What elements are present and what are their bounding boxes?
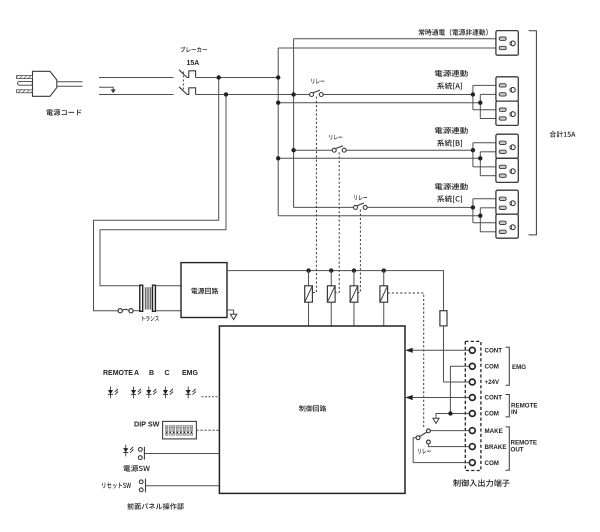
plug blade prong (bottom) xyxy=(17,90,33,93)
node bus1-hot xyxy=(276,75,280,79)
svg-text:EMG: EMG xyxy=(182,370,199,377)
LED D4 (C) xyxy=(163,387,174,399)
label 電源連動 C xyxy=(435,183,468,190)
bracket total current xyxy=(529,31,537,235)
outlet J2 (A lower) xyxy=(496,101,518,125)
bus1 vertical (hot) xyxy=(277,48,279,216)
node coil K2 supply xyxy=(329,268,333,272)
svg-text:C: C xyxy=(165,370,170,377)
label 電源回路 xyxy=(191,288,218,294)
svg-text:OUT: OUT xyxy=(511,446,524,453)
arrow into control box (REMOTE IN CONT) xyxy=(405,395,412,400)
LED D6 (power) xyxy=(123,445,134,457)
outlet J0 (常時通電) xyxy=(496,31,518,56)
svg-text:A: A xyxy=(134,370,139,377)
breaker CB1 pole2 blade xyxy=(179,87,187,95)
svg-text:MAKE: MAKE xyxy=(485,428,503,435)
wire hot from cord to breaker xyxy=(99,77,174,79)
wire secondary bottom to power circuit xyxy=(155,310,181,312)
svg-text:COM: COM xyxy=(485,364,499,371)
label 系統[A] xyxy=(437,82,462,89)
bracket REMOTE IN group xyxy=(506,395,538,417)
node B hot tap xyxy=(291,148,295,152)
transformer T1 primary winding xyxy=(140,285,143,311)
relay coil K3 xyxy=(350,271,358,326)
terminal T6 MAKE xyxy=(469,428,502,435)
node A neutral tap xyxy=(276,101,280,105)
node COM common xyxy=(448,411,452,415)
control circuit box U2 制御回路 xyxy=(219,326,405,493)
label 電源連動 B xyxy=(435,127,468,134)
wire T5 COM to ground xyxy=(436,414,469,418)
bracket REMOTE OUT group xyxy=(506,427,537,470)
label 前面パネル操作部 xyxy=(127,503,183,510)
transformer T1 secondary winding xyxy=(153,285,156,311)
plug blade prong (top) xyxy=(17,76,33,79)
relay coil K4 xyxy=(380,271,388,326)
svg-text:15A: 15A xyxy=(187,60,200,67)
relay coil K2 xyxy=(327,271,335,326)
label トランス xyxy=(142,316,159,321)
breaker CB1 pole1 blade xyxy=(179,70,187,78)
ground lead with down arrow xyxy=(99,87,116,93)
bus2 vertical (neutral) xyxy=(293,39,295,208)
breaker mechanical link (dashed) xyxy=(182,72,184,92)
svg-text:CONT: CONT xyxy=(485,348,503,355)
wire T4 CONT to control box xyxy=(413,397,470,399)
wire B hot to relay xyxy=(294,149,333,151)
wire switch to transformer xyxy=(133,310,140,312)
label 合計15A xyxy=(550,131,576,137)
wire A hot after relay xyxy=(323,94,473,96)
svg-text:CONT: CONT xyxy=(485,395,503,402)
switch S1 (mains) contacts xyxy=(118,309,133,313)
label リレー K3 xyxy=(354,195,367,200)
wire neutral tap to transformer xyxy=(100,95,226,286)
relay K4 blade xyxy=(420,432,427,436)
label 電源SW xyxy=(124,465,150,472)
relay contact K3 (series C) xyxy=(354,203,368,209)
label DIP SW xyxy=(134,419,160,428)
wire coil supply rail xyxy=(227,271,444,311)
node B neutral tap xyxy=(276,156,280,160)
relay K1 actuator link (dashed) xyxy=(313,97,317,293)
wire B neutral xyxy=(278,157,480,159)
relay K4 BRAKE contact xyxy=(427,440,431,444)
label 制御回路 xyxy=(299,405,326,411)
terminal T4 CONT xyxy=(469,395,502,402)
wire T8 COM to relay K4 common xyxy=(413,438,469,463)
wire 電源SW to control box xyxy=(144,453,219,455)
terminal T3 +24V xyxy=(469,379,500,386)
wire A neutral xyxy=(278,102,480,104)
outlet J4 (B lower) xyxy=(496,158,518,182)
terminal T2 COM xyxy=(469,363,499,370)
label 電源コード xyxy=(47,109,82,116)
node bus2-neutral xyxy=(291,92,295,96)
outlet J1 (A upper) xyxy=(496,77,518,101)
power plug P1 body xyxy=(33,71,57,96)
outlet J3 (B upper) xyxy=(496,134,518,158)
terminal T5 COM xyxy=(469,411,499,418)
svg-text:IN: IN xyxy=(511,409,518,416)
relay contact K2 (series B) xyxy=(332,146,346,152)
relay K4 actuator link (dashed) xyxy=(388,293,424,429)
label 15A xyxy=(187,60,200,67)
wire T7 BRAKE to relay K4 contact xyxy=(428,444,469,447)
wire outlet0 line1 xyxy=(294,38,496,40)
arrow into control box (EMG CONT) xyxy=(405,348,412,353)
plug ground prong (middle) xyxy=(18,82,33,86)
switch S2 (電源SW) xyxy=(138,447,144,460)
transformer T1 core xyxy=(145,287,150,309)
relay K2 actuator link (dashed) xyxy=(335,152,339,292)
label 系統[C] xyxy=(437,195,462,202)
svg-text:B: B xyxy=(149,370,154,377)
label ブレーカー xyxy=(181,47,207,53)
DIP switch SW1 xyxy=(163,421,197,439)
wire T2 COM down to common node xyxy=(450,366,469,413)
node hot tap xyxy=(217,75,221,79)
LED D5 (EMG) xyxy=(186,387,197,399)
node coil K4 supply xyxy=(382,268,386,272)
terminal T1 CONT xyxy=(469,347,502,354)
wire outlet0 line2 xyxy=(278,47,496,49)
node coil K3 supply xyxy=(352,268,356,272)
svg-text:COM: COM xyxy=(485,460,499,467)
relay K3 actuator link (dashed) xyxy=(358,210,360,293)
wire neutral from cord to breaker xyxy=(99,94,174,96)
svg-text:+24V: +24V xyxy=(485,379,500,386)
node neutral tap xyxy=(224,92,228,96)
ground symbol (signal) xyxy=(433,418,439,423)
wire R1 to +24V xyxy=(443,326,445,382)
terminal T7 BRAKE xyxy=(469,444,506,451)
label リレー K1 xyxy=(312,79,325,84)
wire C hot to relay xyxy=(294,206,354,208)
wire B hot after relay xyxy=(346,149,473,151)
terminal T8 COM xyxy=(469,460,499,467)
wire リセットSW to control box xyxy=(146,485,220,487)
svg-text:BRAKE: BRAKE xyxy=(485,444,507,451)
label リレー K4 xyxy=(418,449,431,454)
outlet B distribution wires and nodes xyxy=(471,143,496,176)
breaker CB1 pole1 element xyxy=(187,71,196,78)
wire T1 CONT to control box xyxy=(413,349,470,351)
node coil K1 supply xyxy=(306,268,310,272)
bracket EMG group xyxy=(506,347,527,385)
label 系統[B] xyxy=(437,140,462,147)
outlet C distribution wires and nodes xyxy=(471,199,496,232)
wire neutral breaker to relay A xyxy=(196,94,310,96)
svg-text:DIP SW: DIP SW xyxy=(134,419,160,428)
svg-text:EMG: EMG xyxy=(512,364,526,371)
label 常時通電（電源非連動） xyxy=(419,29,488,36)
power cord wires xyxy=(57,82,83,87)
outlet J5 (C upper) xyxy=(496,190,518,214)
wire DIP SW to control box xyxy=(196,429,219,431)
wire T6 MAKE to relay K4 contact xyxy=(430,430,469,432)
label 制御入出力端子 xyxy=(453,479,509,487)
power circuit box U1 電源回路 xyxy=(181,263,227,318)
wire hot breaker to bus1 xyxy=(196,77,279,79)
relay K4 MAKE contact xyxy=(427,429,431,433)
LED D3 (B) xyxy=(146,387,157,399)
wire hot tap to transformer switch xyxy=(94,78,219,311)
wire C neutral xyxy=(278,215,480,217)
outlet A distribution wires and nodes xyxy=(471,85,496,118)
label 電源連動 A xyxy=(435,70,468,77)
wire power circuit to control (arrow) xyxy=(227,310,237,320)
wire C hot after relay xyxy=(367,206,473,208)
resistor R1 xyxy=(440,311,447,326)
label REMOTE A B C EMG xyxy=(103,370,199,377)
switch S3 (リセットSW) xyxy=(139,479,145,493)
outlet J6 (C lower) xyxy=(496,214,518,238)
label リレー K2 xyxy=(330,135,343,140)
LED D2 (A) xyxy=(131,387,142,399)
relay K4 common contact xyxy=(416,436,420,440)
wire T3 +24V xyxy=(444,381,470,383)
wire secondary top to power circuit xyxy=(155,285,181,287)
svg-text:REMOTE: REMOTE xyxy=(103,370,133,377)
relay contact K1 (series A) xyxy=(310,90,324,96)
svg-text:COM: COM xyxy=(485,411,499,418)
LED D1 (REMOTE) xyxy=(108,387,119,399)
terminal block outline (dashed) xyxy=(465,341,481,470)
wire LED row to control box (dashed) xyxy=(202,396,220,398)
label リセットSW xyxy=(102,483,131,489)
relay coil K1 xyxy=(305,271,313,326)
breaker CB1 pole2 element xyxy=(187,88,196,95)
